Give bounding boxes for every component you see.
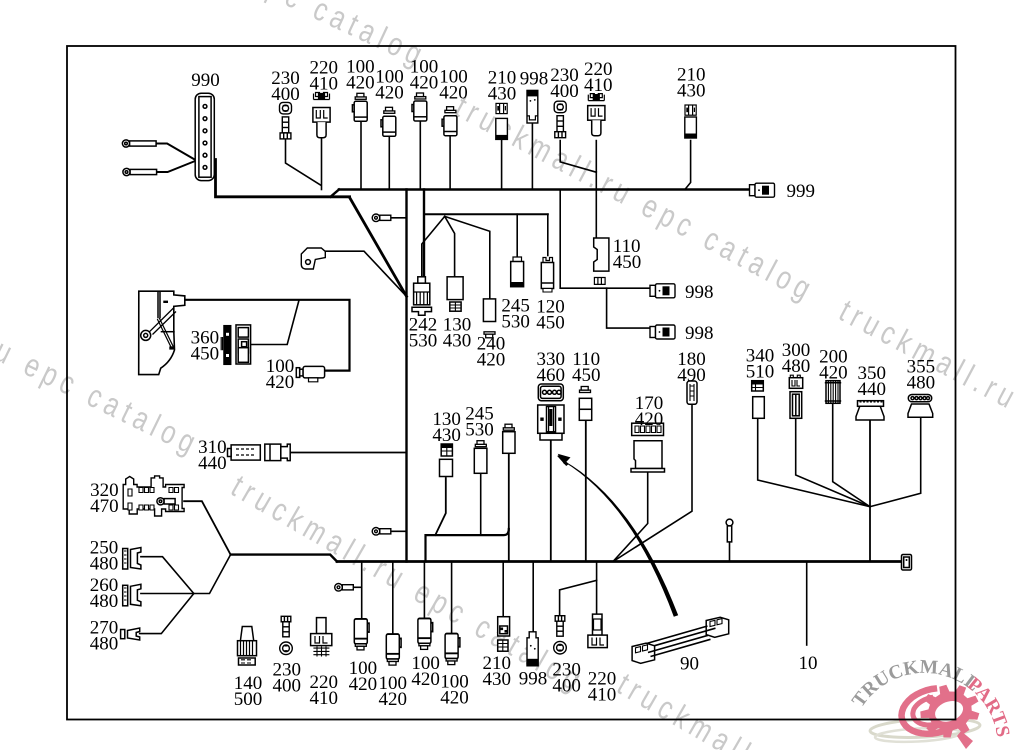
svg-text:210430: 210430 — [482, 653, 511, 690]
connector 310/440 pair — [228, 444, 291, 461]
svg-text:110450: 110450 — [572, 349, 601, 386]
connector 998-r2 — [650, 325, 675, 339]
svg-text:220410: 220410 — [588, 668, 617, 705]
svg-text:100420: 100420 — [266, 356, 295, 393]
connector 330/460 — [538, 384, 564, 440]
svg-text:245530: 245530 — [501, 296, 530, 333]
connector 250/480 — [123, 548, 141, 570]
wire fan 130/430-u — [445, 216, 455, 276]
terminal pin upper — [122, 140, 195, 160]
connector 210/430-b — [498, 617, 510, 652]
wire from 990 strip to bus — [216, 160, 350, 197]
bolt connector 230/400-b2 — [554, 616, 567, 654]
svg-text:242530: 242530 — [409, 315, 438, 352]
wire bottom horizontal channel — [426, 529, 509, 562]
unit 360/450 — [221, 325, 250, 364]
svg-text:270480: 270480 — [90, 618, 119, 655]
wire channel diagonal to trunk — [350, 198, 407, 297]
connector 240/420-l — [503, 424, 515, 453]
svg-text:110450: 110450 — [613, 236, 642, 273]
connector 210/430-2 — [685, 105, 697, 138]
connector 200/420 — [825, 381, 841, 404]
frame border — [67, 46, 956, 720]
svg-text:230400: 230400 — [550, 65, 579, 102]
ring terminal trunk lower — [372, 528, 391, 536]
plug 220/410-b2 — [588, 614, 607, 648]
svg-text:100420: 100420 — [378, 673, 407, 710]
rail 90 — [632, 617, 729, 663]
svg-text:250480: 250480 — [90, 537, 119, 574]
svg-text:100420: 100420 — [349, 658, 378, 695]
svg-text:90: 90 — [680, 654, 699, 675]
wire trunk right edge — [423, 190, 425, 279]
svg-text:140500: 140500 — [234, 673, 263, 710]
wire right fan 355/480 — [870, 418, 921, 507]
wire 100/420-c drop — [419, 121, 421, 190]
connector 340/510 — [752, 381, 765, 419]
bracket relay — [301, 248, 325, 269]
svg-text:240420: 240420 — [477, 333, 506, 370]
wire right fan 300/480 — [796, 419, 870, 507]
wire 100/420-bl4 drop — [451, 562, 453, 633]
wire fan 242/530 — [422, 216, 445, 277]
connector 990 strip — [195, 93, 214, 180]
svg-text:998: 998 — [685, 323, 714, 344]
wire 100/420-bl1 drop — [361, 562, 363, 619]
wire 110/450-m drop — [585, 421, 587, 562]
ring terminal trunk upper — [372, 214, 391, 222]
connector 240/420-u — [483, 299, 495, 338]
wire 230/400-1 drop — [286, 139, 321, 185]
connector 110/450-r — [594, 238, 609, 284]
wire right fan 200/420 — [833, 404, 870, 507]
wire 270/480 — [140, 594, 194, 634]
wire 100/420-d drop — [449, 136, 451, 189]
wire 250/480 — [141, 557, 194, 594]
svg-text:350440: 350440 — [857, 363, 886, 400]
wire right fan 340/510 — [758, 419, 870, 507]
pedal bracket 360/450 area — [139, 291, 185, 374]
wire 998-1 drop — [531, 123, 533, 189]
svg-text:320470: 320470 — [90, 480, 119, 517]
connector 130/430-u — [447, 277, 463, 311]
plug 100/420-c — [412, 93, 427, 121]
plug 100/420-bl3 — [418, 618, 433, 649]
bolt connector 230/400-1 — [280, 102, 292, 138]
svg-text:10: 10 — [799, 653, 818, 674]
wire small stub connector — [729, 542, 731, 562]
wire 220/410-2 to 110/450 — [595, 141, 597, 238]
svg-text:100420: 100420 — [439, 66, 468, 103]
svg-text:180490: 180490 — [677, 349, 706, 386]
connector 350/440 — [856, 401, 884, 420]
wire leader 10 — [806, 562, 808, 646]
connector 120/450 — [541, 258, 553, 293]
terminal pin lower — [123, 161, 195, 176]
connector 100/420-mid — [296, 366, 324, 381]
svg-text:260480: 260480 — [90, 575, 119, 612]
wire 210/430-2 drop — [685, 141, 691, 190]
wire 998-b drop — [532, 562, 534, 632]
plug 220/410-2 — [588, 94, 605, 136]
wire 210/430-b drop — [502, 562, 504, 617]
plug 100/420-d — [442, 107, 457, 136]
svg-text:100420: 100420 — [375, 66, 404, 103]
svg-text:200420: 200420 — [819, 347, 848, 384]
svg-text:210430: 210430 — [677, 65, 706, 102]
svg-text:220410: 220410 — [584, 59, 613, 96]
svg-text:230400: 230400 — [271, 68, 300, 105]
wire main top bus — [339, 188, 750, 191]
svg-text:998: 998 — [520, 68, 549, 89]
bus end connector 10 — [902, 555, 912, 571]
svg-text:230400: 230400 — [272, 660, 301, 697]
connector 270/480 — [121, 628, 140, 640]
wire 230/400-2 drop — [560, 141, 596, 173]
logo bottom right — [848, 657, 1013, 749]
connector 245/530-m — [474, 441, 487, 474]
wire bus left rise — [331, 190, 340, 197]
svg-text:300480: 300480 — [782, 340, 811, 377]
wire pedal plug — [185, 300, 350, 371]
connector 998-b — [527, 632, 538, 666]
svg-text:130430: 130430 — [443, 315, 472, 352]
wire 220/410-b drop — [596, 562, 598, 615]
connector 245/530-u — [511, 257, 524, 287]
plug 100/420-a — [352, 93, 367, 121]
bolt connector 230/400-b1 — [280, 616, 293, 654]
svg-text:310440: 310440 — [198, 437, 227, 474]
svg-text:170420: 170420 — [635, 393, 664, 430]
wire 100/420-a drop — [360, 121, 362, 190]
connector 130/430-m — [440, 444, 453, 477]
connector 110/450-m — [579, 387, 591, 421]
bolt connector 230/400-2 — [554, 101, 566, 138]
plug 100/420-bl2 — [386, 634, 401, 665]
svg-text:230400: 230400 — [552, 659, 581, 696]
wire ring terminal lower to trunk — [391, 530, 407, 532]
svg-text:100420: 100420 — [411, 653, 440, 690]
wire 260/480 — [141, 555, 231, 594]
svg-text:220410: 220410 — [310, 58, 339, 95]
wire branch to 230/400-b — [560, 580, 597, 615]
wire 210/430-1 drop — [501, 139, 503, 189]
connector 998-1 — [527, 90, 538, 123]
wire bracket to trunk — [325, 251, 406, 296]
module 320/470 — [123, 476, 184, 516]
plug 100/420-b — [381, 107, 396, 136]
connector 260/480 — [123, 584, 141, 606]
wire trunk left edge — [405, 190, 407, 562]
wire right fan vertical 350/440 — [869, 421, 871, 562]
wire 100/420-b drop — [388, 135, 390, 190]
wire 245/530-u drop — [516, 214, 518, 256]
wire fan 240/420-u — [445, 216, 490, 299]
connector 242/530 — [412, 277, 432, 315]
svg-text:998: 998 — [519, 668, 548, 689]
wire 310/440 to trunk — [290, 452, 406, 454]
wire main bottom bus — [337, 560, 902, 563]
plug 220/410-b1 — [311, 618, 332, 657]
wire 240/420-l vertical — [508, 453, 510, 561]
svg-text:100420: 100420 — [410, 57, 439, 94]
wire bus drop to 998 pair — [560, 190, 650, 289]
svg-text:245530: 245530 — [465, 403, 494, 440]
connector 998-r1 — [650, 284, 675, 298]
wire 180/490 leader — [613, 405, 692, 562]
svg-text:120450: 120450 — [536, 297, 565, 334]
svg-text:130430: 130430 — [432, 409, 461, 446]
wire trunk bottom jog — [435, 478, 446, 535]
wire ring terminal upper to trunk — [391, 217, 407, 219]
wire branch to 360/450 — [251, 301, 299, 345]
plug 220/410-1 — [313, 93, 330, 138]
svg-text:220410: 220410 — [310, 672, 339, 709]
wire trunk inner horizontal — [424, 213, 548, 215]
wire ring terminal b to drop — [353, 586, 362, 588]
svg-text:990: 990 — [191, 70, 220, 91]
plug 100/420-bl1 — [354, 619, 369, 650]
connector 355/480 — [908, 395, 933, 418]
connector 210/430-1 — [496, 103, 508, 139]
svg-text:210430: 210430 — [488, 68, 517, 105]
svg-text:998: 998 — [685, 282, 714, 303]
wire 220/410-1 drop — [321, 139, 323, 190]
wire 100/420-bl3 drop — [423, 562, 425, 619]
connector 180/490 — [687, 381, 697, 404]
ring terminal bottom — [335, 584, 354, 592]
wire 320/470 module to bus fan — [184, 501, 231, 554]
svg-text:360450: 360450 — [191, 328, 220, 365]
svg-text:999: 999 — [787, 181, 816, 202]
wire 170/420 leader — [613, 472, 648, 562]
svg-text:355480: 355480 — [907, 357, 936, 394]
svg-text:100420: 100420 — [346, 57, 375, 94]
wire branch to second 998 — [607, 288, 651, 328]
plug 100/420-bl4 — [445, 634, 460, 665]
wire 120/450 drop — [547, 214, 549, 255]
wire 100/420-bl2 drop — [392, 562, 394, 635]
arrow curved pointer — [557, 454, 678, 617]
svg-text:100420: 100420 — [440, 671, 469, 708]
wire 245/530-m drop — [480, 474, 482, 535]
connector 999 — [750, 183, 775, 197]
connector 140/500 — [238, 627, 257, 666]
small stub connector — [726, 519, 733, 542]
svg-text:330460: 330460 — [537, 349, 566, 386]
box 170/420 — [631, 423, 665, 472]
wire fan left approach — [231, 555, 337, 562]
svg-text:340510: 340510 — [746, 346, 775, 383]
connector 300/480 — [789, 375, 802, 418]
wire 330/460 drop — [550, 441, 552, 562]
